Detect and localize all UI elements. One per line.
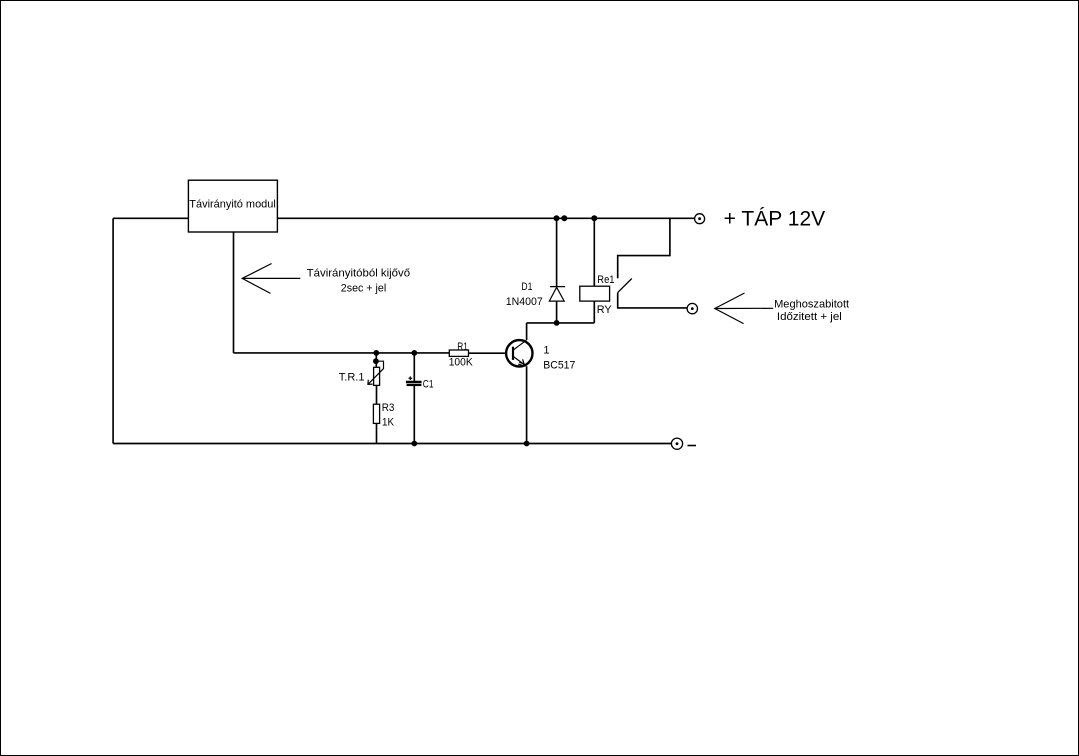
resistor R1 body [449, 350, 468, 356]
junction dot C1 top [411, 350, 417, 356]
svg-text:1N4007: 1N4007 [506, 296, 543, 308]
svg-text:Meghoszabitott: Meghoszabitott [774, 298, 849, 310]
wire collector vertical [526, 323, 528, 340]
wire switch feed from +12V rail [618, 218, 670, 278]
wire collector horizontal [527, 322, 595, 324]
arrow timed signal [715, 293, 773, 324]
diode D1 triangle [549, 287, 564, 301]
svg-text:1: 1 [543, 345, 549, 357]
junction dot relay coil top [591, 215, 597, 221]
svg-text:Időzitett + jel: Időzitett + jel [777, 311, 842, 323]
wire top-left from module to left rail [113, 217, 188, 219]
wire between trimmer and R3 [376, 385, 378, 404]
transistor base bar [512, 347, 514, 360]
relay Re1 coil box [580, 286, 610, 301]
svg-text:100K: 100K [449, 356, 474, 368]
wire emitter vertical [526, 366, 528, 443]
wire C1 bottom stem [413, 386, 415, 444]
svg-text:Re1: Re1 [597, 274, 614, 286]
wire mid horizontal to R1 [234, 352, 450, 354]
wire R1 to transistor base [469, 352, 506, 354]
svg-text:+ TÁP 12V: + TÁP 12V [724, 208, 826, 231]
wire relay coil top [593, 218, 595, 286]
svg-text:Távirányitóból kijővő: Távirányitóból kijővő [307, 267, 410, 279]
capacitor C1 plates [406, 382, 422, 385]
transistor emitter diagonal with arrow [514, 357, 527, 366]
resistor R3 body [373, 404, 379, 423]
svg-text:RY: RY [597, 304, 613, 316]
terminal +12V [695, 214, 705, 224]
transistor Q1 BC517 circle [506, 340, 532, 366]
junction dot C1 bottom [411, 441, 417, 447]
wire diode bottom [556, 301, 558, 323]
wire relay coil bottom [593, 301, 595, 323]
junction dot diode to collector wire [554, 320, 560, 326]
svg-text:R3: R3 [382, 402, 395, 414]
terminal minus [671, 438, 682, 449]
svg-text:T.R.1: T.R.1 [339, 371, 365, 383]
wire module output stem [233, 232, 235, 353]
transistor collector diagonal [514, 340, 527, 350]
module box Távirányitó modul [188, 180, 277, 232]
wire left vertical rail [112, 218, 114, 443]
svg-text:D1: D1 [521, 281, 532, 293]
wire diode top [556, 218, 558, 286]
svg-text:BC517: BC517 [543, 360, 575, 372]
svg-text:1K: 1K [382, 417, 395, 429]
trimmer T.R.1 wiper arrow [368, 361, 384, 384]
svg-text:C1: C1 [423, 379, 434, 391]
wire C1 top stem [413, 353, 415, 381]
relay switch blade [618, 279, 632, 293]
junction dot trimmer top [373, 350, 379, 356]
svg-text:2sec + jel: 2sec + jel [341, 283, 386, 295]
wire trimmer top stem [375, 353, 377, 367]
diode D1 cathode bar [550, 286, 565, 288]
junction dot diode top [554, 215, 560, 221]
wire top +12V rail [277, 217, 694, 219]
junction dot trimmer wiper [373, 358, 379, 364]
svg-text:R1: R1 [457, 341, 468, 353]
wire bottom ground rail [113, 443, 671, 445]
wire switch output [618, 293, 687, 308]
wire R3 to ground rail [376, 423, 378, 443]
minus sign [688, 445, 697, 447]
capacitor C1 polarity plus [409, 376, 413, 380]
svg-text:Távirányitó modul: Távirányitó modul [189, 199, 275, 211]
arrow remote signal [242, 264, 300, 294]
trimmer T.R.1 body [374, 367, 380, 385]
junction dot emitter to ground rail [524, 441, 530, 447]
terminal timed output [687, 303, 697, 313]
junction dot extra on +12V rail [561, 215, 567, 221]
